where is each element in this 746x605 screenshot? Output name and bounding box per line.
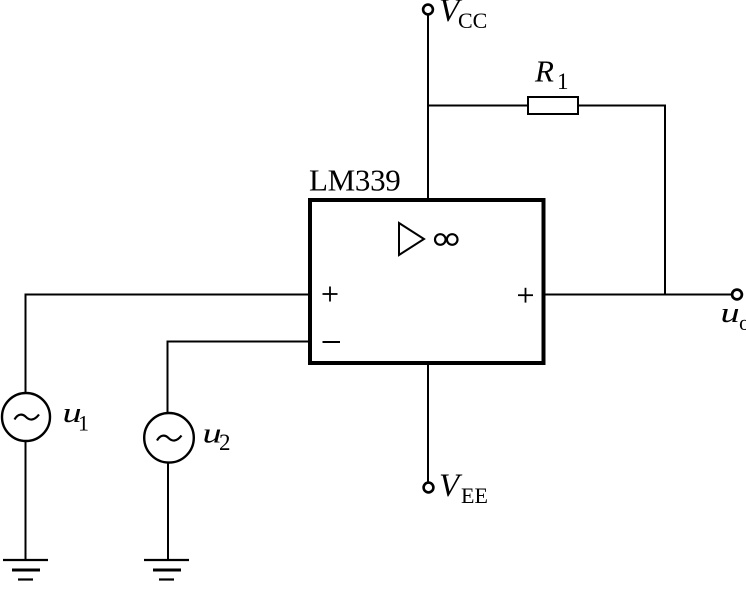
- svg-text:u: u: [721, 297, 740, 329]
- svg-text:EE: EE: [461, 483, 488, 508]
- svg-text:2: 2: [219, 430, 231, 455]
- svg-text:1: 1: [557, 69, 569, 94]
- svg-text:1: 1: [78, 411, 89, 436]
- svg-text:LM339: LM339: [309, 163, 401, 198]
- svg-text:o: o: [739, 310, 746, 335]
- svg-text:R: R: [534, 54, 554, 89]
- svg-text:CC: CC: [458, 8, 487, 33]
